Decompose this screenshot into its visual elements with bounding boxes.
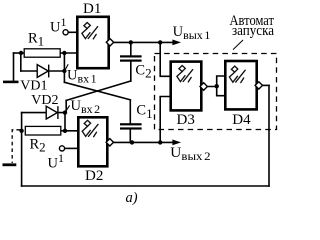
- wire Uvyh1 down to D3 input: [160, 42, 170, 76]
- node R2 right: [63, 129, 67, 133]
- bubble D3: [200, 83, 207, 90]
- resistor R2: [25, 126, 61, 135]
- wire D3 lower input to Uvyh2: [160, 97, 170, 143]
- leader line: [233, 40, 243, 50]
- ground GND2: [3, 163, 17, 166]
- wire D2 output row: [114, 141, 174, 143]
- svg-text:D1: D1: [83, 1, 101, 17]
- wire C2 top lead: [130, 42, 132, 55]
- node C1 bottom: [130, 140, 134, 144]
- terminal U1 top: [63, 30, 68, 35]
- diode VD1: [37, 65, 49, 78]
- svg-text:VD2: VD2: [31, 93, 58, 108]
- node Uvyh2: [158, 140, 162, 144]
- svg-text:R2: R2: [30, 136, 46, 154]
- dashed link to GND2: [12, 130, 20, 163]
- dashed box automaton: [155, 54, 277, 130]
- wire node Uvx1 vertical: [63, 53, 65, 71]
- terminal U1 bottom: [59, 146, 64, 151]
- wire Uvx2 stub: [65, 100, 67, 112]
- arrow Uvyh1: [172, 40, 181, 46]
- wire bottom feedback: [22, 185, 269, 187]
- bubble D1: [106, 39, 113, 46]
- resistor R1: [24, 49, 60, 57]
- svg-text:C1: C1: [136, 103, 152, 121]
- svg-text:D2: D2: [85, 168, 103, 184]
- wire left column down to bottom: [21, 113, 23, 186]
- wire VD1 anode drop: [20, 53, 22, 71]
- svg-text:R1: R1: [28, 30, 44, 48]
- wire R2 right to D2 input: [61, 130, 78, 132]
- ground GND1: [3, 81, 19, 84]
- wire U1 bottom to D2: [65, 147, 78, 149]
- wire D4 output down: [268, 85, 270, 186]
- wire U1 top to D1: [68, 31, 78, 33]
- arrow Uvyh2: [172, 140, 181, 146]
- svg-text:запуска: запуска: [232, 23, 274, 39]
- node C2 top: [129, 40, 133, 44]
- bubble D2: [106, 139, 113, 146]
- gate D3: [171, 62, 202, 111]
- wire D4 bubble to corner: [262, 84, 269, 86]
- node Uvx1: [62, 69, 66, 73]
- bubble D4: [255, 82, 262, 89]
- node R1 left: [19, 51, 23, 55]
- wire D1 output row: [113, 41, 174, 43]
- wire VD2 row: [22, 112, 65, 114]
- node Uvyh1: [158, 40, 162, 44]
- node D3-D4: [215, 84, 219, 88]
- svg-text:а): а): [126, 190, 138, 206]
- wire diagonal B C2 to Uvx2: [66, 81, 131, 100]
- wire R1 right to D1 input: [60, 52, 78, 54]
- wire ground drop: [13, 53, 15, 81]
- capacitor C2: [120, 55, 142, 61]
- tick Uvx1: [65, 64, 68, 70]
- wire C1 top lead: [129, 100, 131, 124]
- diode VD2: [46, 106, 58, 119]
- wire diagonal A Uvx1 to C1: [64, 82, 130, 100]
- capacitor C1: [120, 123, 142, 129]
- wire Uvx1 stub down: [63, 71, 65, 82]
- svg-text:D4: D4: [232, 112, 251, 128]
- wire C1 bottom lead: [129, 129, 131, 142]
- gate D4: [225, 61, 256, 109]
- node Uvx2: [63, 110, 67, 114]
- wire C2 bottom lead: [130, 61, 132, 81]
- svg-text:VD1: VD1: [20, 79, 47, 94]
- wire VD1 row: [21, 70, 65, 72]
- node R2 left: [19, 129, 23, 133]
- gate D2: [78, 117, 107, 166]
- wire VD2 node down to R2 node: [64, 113, 66, 131]
- tick Uvx2: [66, 105, 70, 111]
- gate D1: [77, 17, 108, 68]
- svg-text:C2: C2: [135, 62, 151, 80]
- wire D3 output to D4 bracket: [207, 76, 225, 96]
- node R1 right: [62, 51, 66, 55]
- wire top-left horizontal to R1: [14, 52, 26, 54]
- svg-text:D3: D3: [177, 112, 195, 128]
